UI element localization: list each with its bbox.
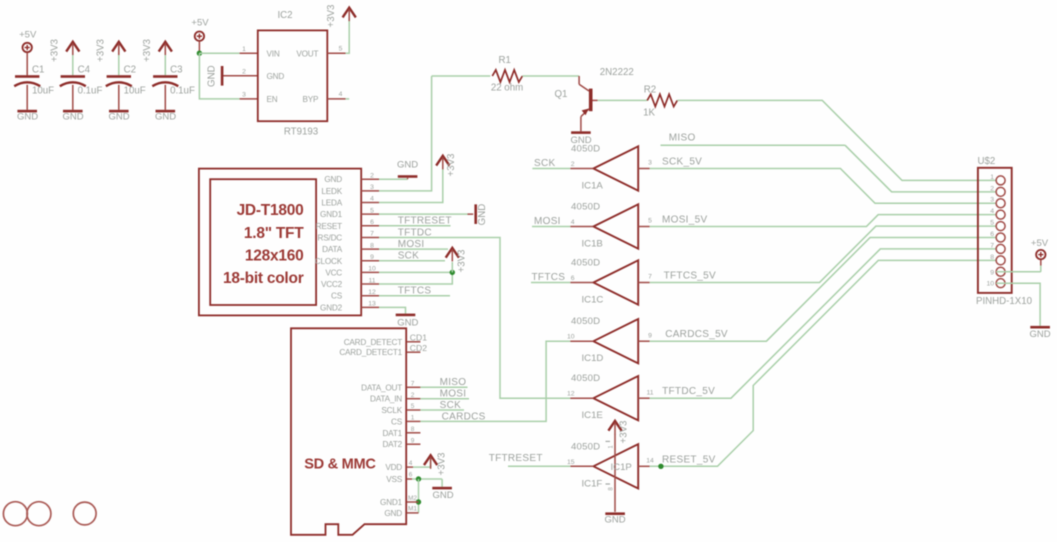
svg-text:TFTRESET: TFTRESET: [398, 216, 452, 227]
svg-text:C2: C2: [124, 64, 136, 75]
svg-text:5: 5: [339, 45, 343, 52]
svg-text:DAT1: DAT1: [382, 429, 402, 438]
svg-text:VOUT: VOUT: [296, 49, 318, 58]
svg-text:9: 9: [370, 254, 374, 261]
svg-text:VCC2: VCC2: [321, 280, 343, 289]
svg-text:+3V3: +3V3: [446, 154, 457, 177]
svg-text:7: 7: [990, 242, 994, 249]
svg-text:13: 13: [368, 301, 376, 308]
svg-text:SCK: SCK: [534, 158, 555, 169]
svg-text:8: 8: [411, 426, 415, 433]
svg-text:12: 12: [368, 289, 376, 296]
svg-text:CLOCK: CLOCK: [315, 257, 343, 266]
svg-text:4: 4: [339, 91, 343, 98]
svg-text:MOSI: MOSI: [440, 389, 467, 400]
svg-text:4: 4: [990, 208, 994, 215]
svg-text:C1: C1: [32, 64, 44, 75]
svg-text:+3V3: +3V3: [619, 421, 630, 444]
svg-text:4: 4: [370, 196, 374, 203]
svg-text:6: 6: [370, 219, 374, 226]
svg-text:22 ohm: 22 ohm: [491, 83, 523, 94]
svg-text:RT9193: RT9193: [284, 126, 318, 137]
svg-text:11: 11: [368, 277, 375, 284]
svg-text:1: 1: [990, 174, 994, 181]
svg-text:MOSI: MOSI: [398, 239, 425, 250]
svg-text:3: 3: [648, 160, 652, 167]
svg-text:+3V3: +3V3: [457, 250, 468, 273]
svg-text:Q1: Q1: [555, 89, 568, 100]
svg-text:4: 4: [571, 219, 575, 226]
svg-text:7: 7: [648, 274, 652, 281]
svg-text:2: 2: [571, 161, 575, 168]
svg-text:1.8" TFT: 1.8" TFT: [244, 225, 304, 242]
svg-text:9: 9: [411, 437, 415, 444]
svg-text:M1: M1: [408, 506, 417, 513]
svg-text:TFTCS: TFTCS: [532, 272, 566, 283]
svg-text:10uF: 10uF: [124, 86, 146, 97]
svg-text:8: 8: [990, 254, 994, 261]
svg-text:GND: GND: [324, 175, 342, 184]
svg-text:0.1uF: 0.1uF: [78, 86, 103, 97]
svg-text:GND: GND: [17, 112, 38, 123]
svg-text:C3: C3: [170, 64, 182, 75]
svg-text:9: 9: [990, 269, 994, 276]
svg-text:10: 10: [986, 281, 994, 288]
svg-text:DATA_IN: DATA_IN: [370, 395, 402, 404]
svg-text:RESET_5V: RESET_5V: [662, 454, 716, 465]
svg-text:CARDCS: CARDCS: [442, 411, 486, 422]
svg-text:7: 7: [370, 231, 374, 238]
svg-text:VIN: VIN: [267, 49, 280, 58]
svg-text:RS/DC: RS/DC: [318, 233, 343, 242]
svg-text:3: 3: [990, 197, 994, 204]
svg-text:1: 1: [411, 415, 415, 422]
svg-text:3: 3: [370, 184, 374, 191]
svg-text:DATA_OUT: DATA_OUT: [361, 383, 402, 392]
svg-text:5: 5: [370, 207, 374, 214]
svg-text:+5V: +5V: [1031, 238, 1049, 249]
svg-text:2: 2: [990, 185, 994, 192]
svg-text:DATA: DATA: [322, 245, 343, 254]
svg-text:3: 3: [242, 91, 246, 98]
svg-text:5: 5: [648, 218, 652, 225]
svg-text:BYP: BYP: [303, 95, 320, 104]
svg-text:C4: C4: [78, 64, 91, 75]
svg-text:GND: GND: [477, 204, 488, 226]
svg-text:VDD: VDD: [385, 463, 402, 472]
svg-text:128x160: 128x160: [245, 247, 304, 264]
svg-text:GND1: GND1: [320, 210, 343, 219]
svg-text:4050D: 4050D: [571, 441, 600, 452]
svg-text:TFTCS: TFTCS: [398, 286, 432, 297]
svg-text:18-bit color: 18-bit color: [223, 270, 304, 287]
svg-text:+5V: +5V: [191, 18, 209, 29]
svg-text:U$2: U$2: [978, 156, 996, 167]
svg-text:10: 10: [368, 266, 376, 273]
svg-text:CD1: CD1: [410, 333, 427, 343]
svg-text:+5V: +5V: [19, 30, 37, 41]
svg-text:2N2222: 2N2222: [600, 67, 634, 78]
svg-text:12: 12: [567, 391, 575, 398]
svg-text:MOSI: MOSI: [534, 216, 561, 227]
svg-text:CARD_DETECT: CARD_DETECT: [344, 338, 403, 347]
svg-text:4050D: 4050D: [571, 316, 600, 327]
svg-text:+3V3: +3V3: [96, 39, 107, 62]
svg-text:5: 5: [411, 403, 415, 410]
svg-text:GND: GND: [63, 112, 84, 123]
svg-text:GND: GND: [267, 72, 285, 81]
svg-text:9: 9: [648, 332, 652, 339]
svg-text:CARD_DETECT1: CARD_DETECT1: [339, 348, 402, 357]
svg-text:+3V3: +3V3: [326, 5, 337, 28]
svg-text:JD-T1800: JD-T1800: [237, 202, 304, 219]
svg-text:GND: GND: [397, 318, 418, 329]
svg-text:CARDCS_5V: CARDCS_5V: [665, 329, 728, 340]
svg-text:TFTDC_5V: TFTDC_5V: [662, 386, 715, 397]
svg-text:GND: GND: [207, 65, 218, 87]
svg-text:MISO: MISO: [440, 377, 467, 388]
svg-text:2: 2: [370, 172, 374, 179]
svg-text:DAT2: DAT2: [382, 440, 402, 449]
svg-text:CS: CS: [331, 292, 343, 301]
svg-text:M2: M2: [408, 495, 417, 502]
svg-text:+3V3: +3V3: [436, 453, 447, 476]
svg-text:4050D: 4050D: [571, 144, 600, 155]
svg-text:4050D: 4050D: [571, 202, 600, 213]
svg-text:4050D: 4050D: [571, 258, 600, 269]
svg-text:EN: EN: [267, 95, 278, 104]
svg-text:TFTDC: TFTDC: [398, 227, 432, 238]
svg-text:LEDA: LEDA: [321, 199, 342, 208]
svg-text:RESET: RESET: [316, 222, 342, 231]
svg-text:IC1D: IC1D: [582, 353, 604, 364]
svg-text:+3V3: +3V3: [142, 39, 153, 62]
svg-text:VCC: VCC: [325, 268, 342, 277]
svg-text:6: 6: [409, 472, 413, 479]
svg-text:MOSI_5V: MOSI_5V: [662, 215, 707, 226]
svg-text:SCK_5V: SCK_5V: [662, 157, 702, 168]
svg-text:11: 11: [646, 389, 653, 396]
svg-text:6: 6: [571, 275, 575, 282]
svg-text:10uF: 10uF: [32, 86, 54, 97]
svg-text:TFTRESET: TFTRESET: [489, 453, 543, 464]
svg-text:1K: 1K: [643, 107, 655, 118]
svg-text:CS: CS: [391, 417, 403, 426]
svg-text:+3V3: +3V3: [50, 39, 61, 62]
svg-text:VSS: VSS: [386, 475, 403, 484]
svg-text:5: 5: [990, 220, 994, 227]
svg-text:IC1B: IC1B: [582, 239, 603, 250]
svg-text:GND: GND: [397, 159, 418, 170]
svg-text:R1: R1: [499, 55, 511, 66]
svg-text:2: 2: [411, 392, 415, 399]
svg-text:TFTCS_5V: TFTCS_5V: [664, 271, 716, 282]
svg-text:IC2: IC2: [277, 10, 292, 21]
svg-text:LEDK: LEDK: [321, 187, 342, 196]
svg-text:GND1: GND1: [380, 498, 403, 507]
svg-text:R2: R2: [644, 84, 656, 95]
svg-text:4050D: 4050D: [571, 373, 600, 384]
svg-text:14: 14: [646, 458, 654, 465]
svg-text:0.1uF: 0.1uF: [170, 86, 195, 97]
svg-text:GND: GND: [605, 515, 626, 526]
svg-text:GND: GND: [155, 112, 176, 123]
svg-text:15: 15: [567, 459, 575, 466]
svg-text:GND2: GND2: [320, 303, 343, 312]
svg-text:GND: GND: [384, 509, 402, 518]
svg-text:PINHD-1X10: PINHD-1X10: [976, 296, 1033, 307]
svg-text:7: 7: [411, 381, 415, 388]
svg-text:SD & MMC: SD & MMC: [304, 456, 376, 472]
svg-text:SCK: SCK: [398, 251, 419, 262]
svg-text:IC1A: IC1A: [582, 181, 604, 192]
svg-text:SCLK: SCLK: [381, 406, 402, 415]
svg-text:IC1F: IC1F: [582, 478, 603, 489]
svg-text:4: 4: [409, 460, 413, 467]
svg-text:8: 8: [370, 242, 374, 249]
svg-text:1: 1: [242, 46, 246, 53]
svg-text:IC1P: IC1P: [611, 462, 632, 473]
svg-text:GND: GND: [432, 490, 453, 501]
svg-text:GND: GND: [1030, 329, 1051, 340]
svg-text:10: 10: [567, 334, 575, 341]
svg-text:6: 6: [990, 231, 994, 238]
svg-text:GND: GND: [109, 112, 130, 123]
svg-text:IC1E: IC1E: [582, 410, 603, 421]
svg-text:MISO: MISO: [669, 133, 696, 144]
svg-text:IC1C: IC1C: [582, 295, 604, 306]
svg-text:2: 2: [242, 69, 246, 76]
svg-text:SCK: SCK: [440, 400, 461, 411]
svg-text:CD2: CD2: [410, 343, 427, 353]
